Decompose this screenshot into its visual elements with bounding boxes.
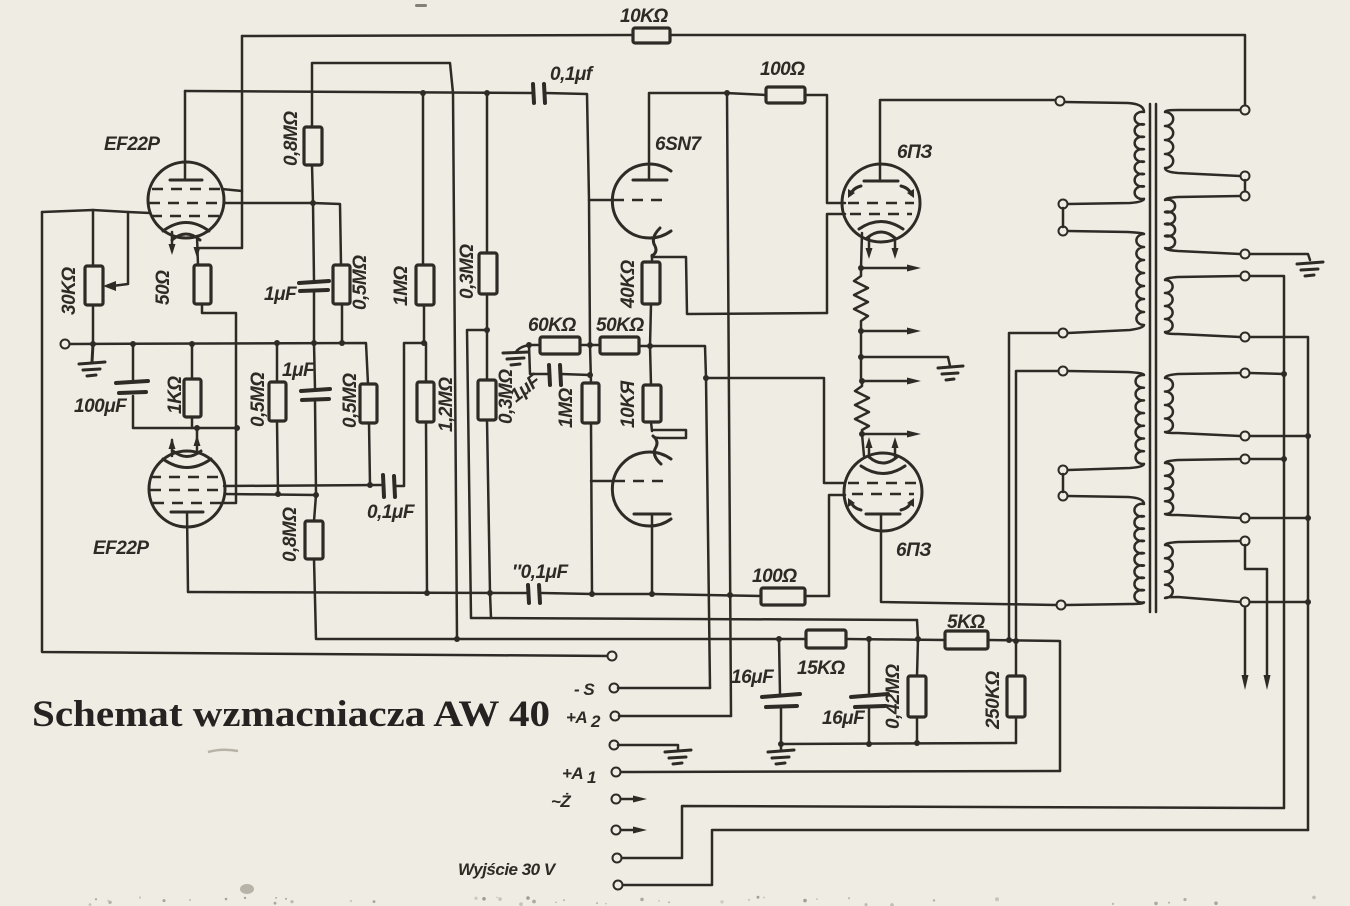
resistor 0.3M upper body: [479, 253, 497, 294]
wire V4 heater leads with arrows: [869, 238, 895, 252]
junction 16uF2 bottom: [866, 741, 872, 747]
junction A2 top: [724, 90, 730, 96]
tube V2 grid dashes row3: [153, 502, 222, 505]
junction heater on 100uF wire: [194, 425, 200, 431]
capacitor 0.1uF bus592 plates: [528, 585, 540, 603]
wire 0.5M upper leads: [313, 203, 342, 343]
tube V3a anode bar: [633, 179, 667, 182]
svg-text:0,1μf: 0,1μf: [550, 64, 594, 85]
resistor 250K body: [1007, 676, 1025, 717]
arrow heater 7: [621, 829, 637, 832]
junction zigzag mid: [858, 328, 864, 334]
wire 1M upper bottom lead: [423, 305, 426, 343]
svg-text:0,3MΩ: 0,3MΩ: [457, 244, 478, 299]
terminal pair1 lower: [1059, 227, 1068, 236]
tube V5 heater arc: [869, 457, 897, 463]
capacitor 100uF column: [133, 344, 238, 428]
resistor 0.3M lower body: [478, 380, 496, 420]
resistor 0.5M upper body: [333, 265, 350, 304]
wire V2 heater stub left: [171, 440, 174, 456]
transformer core: [1150, 104, 1156, 612]
capacitor 16uF2 plates: [851, 694, 888, 707]
wire minus S column: [706, 378, 710, 688]
terminal 9 output: [614, 881, 623, 890]
tube V1 anode bar: [170, 179, 202, 182]
tube V1 grid dashes row3: [151, 215, 222, 218]
svg-text:1μF: 1μF: [264, 284, 298, 305]
junction ground tap: [858, 354, 864, 360]
junction 0.3M col on bus592: [487, 590, 493, 596]
wire cathode link x242 from top corner: [198, 36, 242, 248]
ground secondary: [1297, 262, 1323, 276]
svg-text:16μF: 16μF: [822, 708, 866, 729]
wire S1-S2 link: [1244, 180, 1247, 192]
svg-text:10KЯ: 10KЯ: [618, 380, 639, 428]
junction zigzag2 bottom: [859, 431, 865, 437]
svg-text:1MΩ: 1MΩ: [391, 266, 412, 306]
junction V1 grid node: [310, 200, 316, 206]
terminal 5 plus A1: [612, 768, 621, 777]
wire V3b grid stub: [591, 480, 614, 483]
secondary coil S6: [1165, 541, 1240, 602]
wire bus618 drop: [917, 620, 918, 639]
wire V3a grid stub: [589, 199, 613, 202]
resistor 0.8M lower body: [305, 521, 323, 559]
resistor 1K body: [184, 379, 201, 417]
junction cap to 1M column: [587, 372, 593, 378]
junction x237 column on 100uF wire: [234, 425, 240, 431]
wire 100R upper right lead down to G1: [805, 95, 845, 203]
svg-text:Schemat wzmacniacza AW 40: Schemat wzmacniacza AW 40: [32, 694, 550, 735]
capacitor 16uF2 column: [868, 639, 871, 744]
wire 30K wiper arm: [112, 212, 128, 286]
svg-text:EF22P: EF22P: [93, 538, 149, 559]
wire output arrow 1: [1244, 607, 1247, 682]
junction 16uF1: [776, 636, 782, 642]
terminal plate V4: [1056, 97, 1065, 106]
wire 10K bottom to cathode node V3b: [651, 422, 652, 431]
wire cathode node branch right to G2 loop: [652, 257, 827, 314]
paper smudge under title: [208, 750, 238, 752]
wire V4 G2 stub: [827, 214, 845, 313]
secondary coil S2: [1165, 196, 1240, 254]
wire 1K top lead: [191, 344, 194, 379]
wire 100R upper left lead: [726, 93, 766, 95]
terminal 3 plus A2: [611, 712, 620, 721]
ground at cathode tap: [938, 366, 963, 380]
resistor 5K body: [945, 631, 988, 649]
junction plate bus: [589, 591, 595, 597]
wire 60K to 50K link: [580, 344, 600, 347]
tube V5 anode lead down: [881, 514, 1056, 605]
svg-text:EF22P: EF22P: [104, 134, 160, 155]
junction S5 top X1: [1281, 456, 1287, 462]
junction zigzag2 top: [859, 378, 865, 384]
tube V3a cathode hook: [652, 228, 660, 256]
wire 0.3M upper bottom to mid junction: [486, 294, 489, 380]
terminal 6 heater Z: [612, 795, 621, 804]
wire 1M 6SN7 column: [590, 345, 592, 594]
svg-text:0,5MΩ: 0,5MΩ: [340, 373, 361, 428]
svg-text:Wyjście 30 V: Wyjście 30 V: [458, 860, 557, 879]
tube V2 EF22P envelope: [149, 451, 225, 527]
terminal S6 top: [1241, 537, 1250, 546]
bus639 psu portion: [779, 639, 1060, 771]
terminal S2 bottom: [1241, 250, 1250, 259]
wire tube1 row1 stub to x242: [222, 189, 242, 191]
resistor 1M upper body: [416, 265, 434, 305]
svg-text:0,5MΩ: 0,5MΩ: [350, 255, 371, 310]
wire branch to x471 down to bus618: [467, 330, 487, 618]
junction 0.42M bottom: [914, 740, 920, 746]
svg-text:″0,1μF: ″0,1μF: [512, 562, 569, 583]
wire 0.42M leads: [917, 639, 918, 743]
capacitor 1uF grid plates: [549, 365, 561, 385]
capacitor 1uF lower plates: [301, 389, 330, 400]
tube V2 anode bar: [171, 511, 203, 514]
junction S5 bottom X2: [1305, 515, 1311, 521]
wire V2 heater lead right with arrow up: [196, 428, 199, 453]
junction bus618 end and 0.42M top: [915, 636, 921, 642]
primary coil D: [1066, 496, 1144, 605]
wire 1.2M bottom lead to bus592: [426, 422, 427, 593]
bus592 anode coupling run: [188, 592, 592, 594]
wire anode bus y92: [185, 91, 590, 345]
resistor 50K body: [600, 337, 639, 354]
junction 0.5M upper bottom: [339, 340, 345, 346]
bus639 run left part: [457, 638, 779, 641]
junction 100uF top: [130, 341, 136, 347]
wire 30K top lead: [92, 210, 95, 266]
svg-text:~Ż: ~Ż: [551, 792, 571, 811]
terminal pair1 upper: [1059, 200, 1068, 209]
beam arrowheads V4: [848, 189, 855, 198]
wire 0.5M lowleft top lead: [276, 343, 279, 382]
junction 1M upper bottom: [421, 340, 427, 346]
capacitor 100uF plates: [116, 381, 148, 393]
junction 16uF2 bus: [866, 636, 872, 642]
junction 1M upper top: [420, 90, 426, 96]
wire 0.8M lower bottom lead to bus639: [314, 559, 457, 639]
tube V5 cathode arc: [861, 466, 905, 474]
wire plus A2 column x727: [727, 93, 731, 716]
wire 0.8M upper bottom lead: [312, 165, 313, 203]
svg-text:100Ω: 100Ω: [760, 59, 805, 80]
ground 16uF1: [780, 744, 783, 750]
svg-text:1: 1: [587, 768, 596, 787]
junction 0.5M lowleft bottom: [275, 491, 281, 497]
wire 1K bottom lead: [191, 417, 194, 428]
wire B+ top run y35: [242, 35, 1245, 106]
resistor 0.5M mid body: [360, 384, 377, 423]
wire heater stub upper tube left: [171, 232, 174, 248]
capacitor 1uF upper column: [313, 203, 314, 343]
svg-text:60KΩ: 60KΩ: [528, 315, 576, 336]
wire plus A1 run: [616, 771, 1060, 772]
wire V5 G2 stub to 100R lower: [829, 495, 845, 596]
junction mid 60K 50K: [587, 342, 593, 348]
wire S4 bottom tap: [1250, 435, 1308, 438]
primary coil B: [1068, 231, 1144, 333]
wire tap C to 250K column: [1016, 371, 1058, 641]
wire loop top y63 from 0.8M to x453: [312, 63, 453, 127]
junction 1.2M on bus592: [424, 590, 430, 596]
tube V1 grid dashes row2: [149, 202, 224, 205]
tube V3b 6SN7 envelope arc: [612, 452, 671, 526]
wire left frame vertical and bottom run to terminal 1: [42, 212, 612, 656]
arrow tap 3: [862, 380, 910, 383]
terminal pair3 upper: [1059, 466, 1068, 475]
svg-text:+A: +A: [566, 708, 587, 727]
secondary coil S5: [1165, 459, 1240, 518]
terminal tap B bottom: [1059, 329, 1068, 338]
arrowhead on 50R lead: [194, 247, 201, 258]
tube V1 EF22P envelope: [148, 162, 224, 238]
junction 40K 50K node: [647, 343, 653, 349]
capacitor 0.1uF top plates: [533, 84, 545, 103]
arrowhead V2 heater right: [194, 435, 201, 446]
junction V2 grid node: [313, 492, 319, 498]
secondary coil S3: [1165, 276, 1240, 337]
terminal S2 top: [1241, 192, 1250, 201]
tube V4 cathode arc: [859, 222, 903, 230]
resistor 100R lower body: [761, 588, 805, 605]
wire 250K leads: [1015, 641, 1018, 743]
tube V1 heater arc: [172, 234, 200, 240]
svg-text:30KΩ: 30KΩ: [59, 267, 80, 315]
tube V2 heater arc: [173, 451, 201, 457]
wire 60K node cap branch: [529, 345, 590, 375]
tube V4 grid dashes row1: [848, 202, 914, 205]
tube V2 anode lead down to bus: [187, 512, 188, 592]
junction minus S column top: [703, 375, 709, 381]
tube V1 cathode arc: [163, 223, 209, 232]
wire 0.5M mid bottom lead to row1 bus: [369, 423, 370, 485]
tube V4 grid dashes row2: [850, 213, 912, 216]
terminal 1 chassis: [608, 652, 617, 661]
node input bus y=344: [69, 343, 368, 384]
wire 0.3M upper top lead to bus93: [486, 93, 489, 253]
svg-text:0,42MΩ: 0,42MΩ: [883, 664, 904, 729]
paper speckle row bottom: [89, 896, 1316, 906]
tube V5 anode bar: [866, 513, 900, 516]
arrowhead heater stub: [169, 244, 176, 255]
terminal pair3 lower: [1059, 492, 1068, 501]
wire S4 top tap: [1250, 373, 1284, 374]
wire pair3 link: [1062, 474, 1065, 492]
junction S6 bottom X2: [1305, 599, 1311, 605]
wire S6 top jog to output arrow: [1245, 545, 1267, 682]
wire 50K right lead to node: [639, 345, 650, 348]
svg-text:1μF: 1μF: [282, 360, 316, 381]
junction 0.5M lowleft top: [274, 340, 280, 346]
wire 50R bottom to column x236: [202, 304, 236, 503]
wire 0.5M lowleft bottom lead: [277, 421, 278, 494]
resistor 1.2M body: [417, 382, 434, 422]
wire cathode chain to V5: [862, 434, 864, 456]
wire V4 cathode lead: [861, 233, 862, 268]
svg-text:50KΩ: 50KΩ: [596, 315, 644, 336]
wire terminal4 to ground: [618, 745, 678, 750]
wire tap to B+ left column: [1009, 333, 1058, 640]
wire V3a cathode to 40K: [651, 255, 654, 262]
svg-text:0,1μF: 0,1μF: [367, 502, 416, 523]
wire cathode V3b jog: [652, 430, 686, 438]
wire terminal9 to secondary bus X2: [623, 830, 1308, 885]
bus592 right portion with 100R lower: [652, 594, 829, 596]
terminal S5 bottom: [1241, 514, 1250, 523]
tube V4 beam plates: [851, 186, 911, 194]
terminal S1 bottom: [1241, 172, 1250, 181]
svg-text:6SN7: 6SN7: [655, 134, 702, 155]
terminal S6 bottom: [1241, 598, 1250, 607]
terminal 2 minus S: [610, 684, 619, 693]
tube V2 grid dashes row2: [150, 489, 225, 492]
secondary coil S1: [1165, 110, 1240, 176]
wire 50R top lead with cathode arrow of upper tube: [197, 236, 198, 265]
svg-text:0,5MΩ: 0,5MΩ: [248, 372, 269, 427]
wire zigzag link: [860, 331, 863, 381]
ground terminal4: [665, 750, 691, 764]
svg-text:1MΩ: 1MΩ: [556, 388, 577, 428]
tube V5 6P3 envelope: [844, 453, 922, 531]
wire grid top run from frame to pot top and tube grid row 3: [42, 210, 150, 213]
junction 30K bottom: [90, 341, 96, 347]
wire S5 bottom tap: [1250, 517, 1308, 520]
primary coil C: [1068, 371, 1144, 470]
arrow tap 1: [861, 267, 910, 270]
svg-text:10KΩ: 10KΩ: [620, 6, 668, 27]
capacitor 16uF1 column: [779, 639, 781, 744]
svg-text:15KΩ: 15KΩ: [797, 658, 845, 679]
junction 0.3M upper top: [484, 90, 490, 96]
wire V2 grid row1 bus with coupling cap: [224, 343, 426, 486]
resistor 100R upper body: [766, 87, 805, 103]
capacitor 0.1uF mid plates: [383, 475, 395, 497]
bus618 ground run: [471, 618, 917, 620]
wire 50K node down to 10K: [650, 346, 651, 385]
svg-text:6ПЗ: 6ПЗ: [896, 540, 931, 561]
svg-text:- S: - S: [574, 680, 595, 699]
terminal 7 heater: [612, 826, 621, 835]
wire 0.3M lower bottom lead to buses: [487, 420, 491, 618]
tube V1 grid dashes row1: [152, 188, 221, 191]
primary coil A: [1064, 102, 1144, 204]
terminal input: [61, 340, 70, 349]
tube V4 6P3 envelope: [842, 164, 920, 242]
junction 0.5M mid bottom: [367, 482, 373, 488]
junction primary tap A: [1006, 637, 1012, 643]
tube V3a 6SN7 envelope arc: [612, 164, 671, 238]
junction S4 bottom X2: [1305, 433, 1311, 439]
wire pair1 link: [1062, 208, 1065, 227]
resistor zigzag upper: [854, 268, 868, 331]
arrowhead V2 heater left: [169, 438, 176, 449]
wire terminal8 to secondary bus X1: [622, 806, 1284, 858]
wire S3 top to bus X1: [1250, 276, 1284, 808]
svg-text:6ПЗ: 6ПЗ: [897, 142, 932, 163]
tube V4 anode bar: [864, 180, 898, 183]
junction x487 mid: [484, 327, 490, 333]
svg-text:250KΩ: 250KΩ: [983, 671, 1004, 730]
wire V5 heater leads arrows up: [869, 443, 895, 457]
junction 60K left: [526, 342, 532, 348]
potentiometer R 30K body: [85, 266, 103, 305]
svg-text:50Ω: 50Ω: [153, 270, 174, 305]
svg-text:0,8MΩ: 0,8MΩ: [281, 111, 302, 166]
capacitor 1uF upper plates: [299, 281, 329, 291]
wire S3 bottom to bus X2: [1250, 337, 1308, 830]
resistor 50Ohm body: [194, 265, 211, 304]
wire minus S lead: [618, 687, 710, 690]
wire V1 grid node row2 to junction: [224, 202, 313, 205]
tube V5 grid dashes row1: [848, 482, 916, 485]
ground below 30K: [79, 344, 105, 376]
tube V4 heater arc: [867, 232, 895, 238]
wire S2 to ground: [1250, 254, 1310, 260]
ground at 60K: [503, 352, 529, 365]
svg-text:+A: +A: [562, 764, 583, 783]
svg-text:100μF: 100μF: [74, 396, 128, 417]
tube V4 anode lead up: [880, 100, 1056, 181]
wire 40K bottom lead: [650, 304, 651, 346]
tube V2 grid dashes row1: [150, 476, 224, 479]
terminal S5 top: [1241, 455, 1250, 464]
svg-text:40KΩ: 40KΩ: [618, 260, 639, 309]
secondary coil S4: [1165, 373, 1240, 436]
tube V3b grid dashes: [614, 480, 663, 483]
terminal 8 output: [613, 854, 622, 863]
tube V3a grid dashes: [613, 199, 662, 202]
svg-text:1KΩ: 1KΩ: [165, 376, 186, 414]
tube V3a anode lead up: [649, 93, 726, 180]
tube V5 beam plates: [851, 502, 911, 510]
wire 60K left node to ground: [516, 345, 540, 352]
svg-text:1,2MΩ: 1,2MΩ: [436, 377, 457, 432]
arrow tap 2: [861, 330, 910, 333]
resistor 60K body: [540, 337, 580, 354]
arrowhead output 1: [1242, 675, 1249, 690]
arrow tap 4: [862, 433, 910, 436]
wire ground tap right: [861, 357, 950, 366]
resistor 40K body: [642, 262, 660, 304]
terminal S4 bottom: [1241, 432, 1250, 441]
resistor 10K top body: [633, 28, 670, 43]
capacitor 1uF lower column: [314, 343, 316, 494]
resistor zigzag lower: [855, 381, 869, 434]
svg-text:0,8MΩ: 0,8MΩ: [280, 507, 301, 562]
junction cathode top: [858, 265, 864, 271]
terminal S4 top: [1241, 369, 1250, 378]
junction V3b anode tee: [649, 591, 655, 597]
junction 16uF1 bottom: [778, 741, 784, 747]
wire S6 bottom tap: [1250, 601, 1308, 604]
wire 30K bottom lead: [92, 305, 95, 344]
wire S5 top tap: [1250, 458, 1284, 461]
junction x453 on bus639: [454, 636, 460, 642]
paper blemish blob: [240, 884, 254, 894]
wire y744 run: [781, 743, 1016, 744]
resistor 15K body: [806, 630, 846, 648]
junction 1uF bus: [311, 340, 317, 346]
arrow heater Z: [621, 798, 637, 801]
tube V3b anode lead down joins bus592: [592, 514, 652, 594]
junction A2 column on bus: [727, 592, 733, 598]
tube V3b anode bar: [634, 513, 670, 516]
wire long column x453 to bus639: [453, 93, 457, 639]
svg-text:2: 2: [590, 712, 601, 731]
resistor 10K lower body: [643, 385, 661, 422]
